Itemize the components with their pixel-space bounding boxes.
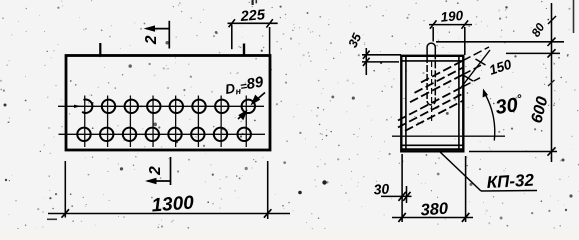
label KP-32 with leader	[438, 150, 537, 191]
loop axis dashed centerline	[431, 61, 433, 122]
dimension 80 and 600 (right vertical chain)	[436, 3, 564, 162]
section mark 2 (top)	[146, 21, 169, 49]
scan artifact blobs	[322, 180, 326, 184]
wire column 4 vertical centerline	[152, 96, 154, 148]
wire bottom row centerline	[59, 133, 266, 135]
svg-text:1300: 1300	[151, 193, 195, 217]
svg-text:2: 2	[143, 35, 160, 45]
stray tick on 600 line	[548, 80, 555, 86]
lifting loop L2 (plan mark)	[243, 44, 245, 57]
hole top row 2 Dn=89	[102, 100, 115, 113]
node A top-row first hole (open arc with arrow)	[82, 100, 92, 113]
wire column 5 vertical centerline	[175, 96, 177, 148]
wire column 6 vertical centerline	[197, 96, 199, 148]
wire column 3 vertical centerline	[129, 96, 131, 148]
wire top row centerline	[58, 105, 264, 107]
wire column 2 vertical centerline	[107, 96, 109, 148]
channel group A (upper dashed ducts at 30 deg)	[410, 61, 463, 102]
horizontal reference line through section	[392, 135, 505, 137]
dimension 30 (wall thickness bottom-left)	[381, 154, 412, 222]
svg-text:225: 225	[239, 7, 266, 25]
svg-text:190: 190	[440, 8, 464, 25]
hole bottom row 1 Dn=89	[77, 128, 90, 141]
scan artifact top edge marks	[252, 0, 254, 5]
hole bottom row 3 Dn=89	[123, 128, 136, 141]
leader arrow lower for Dn=89	[238, 112, 246, 120]
hole bottom row 7 Dn=89	[214, 128, 227, 141]
dimension 225	[228, 19, 278, 55]
panel outline (plan view rectangle)	[66, 56, 270, 151]
hole bottom row 2 Dn=89	[100, 128, 113, 141]
wire column 8 vertical centerline	[245, 96, 247, 148]
channel group B (lower dashed ducts at 30 deg)	[398, 87, 463, 131]
section mark 2 (bottom)	[148, 157, 171, 185]
dimension 35 (top plate thickness)	[362, 48, 401, 75]
hole bottom row 6 Dn=89	[191, 128, 204, 141]
panel section inner wall lines	[402, 56, 463, 150]
panel section outer outline	[401, 56, 463, 152]
svg-text:380: 380	[420, 200, 450, 220]
scan artifact right edge line	[573, 0, 575, 33]
hole top row 3 Dn=89	[125, 100, 138, 113]
hole top row 6 Dn=89	[192, 100, 205, 113]
lifting loop in section	[427, 43, 435, 105]
wire column 1 vertical centerline	[84, 96, 86, 148]
channel B extension beyond edge	[463, 78, 481, 87]
svg-text:30: 30	[373, 180, 390, 197]
dimension 1300	[48, 161, 290, 219]
hole top row 8 Dn=89	[242, 100, 255, 113]
hole top row 7 Dn=89	[215, 100, 228, 113]
svg-text:2: 2	[147, 166, 164, 176]
angle 30 deg arc with arrow	[484, 93, 495, 141]
hole bottom row 8 Dn=89	[238, 128, 251, 141]
hole top row 4 Dn=89	[147, 100, 160, 113]
dimension 380	[392, 156, 473, 222]
channel A extension beyond edge	[463, 47, 490, 75]
svg-text:КП-32: КП-32	[486, 171, 535, 192]
wire column 7 vertical centerline	[220, 96, 222, 148]
hole bottom row 4 Dn=89	[146, 128, 159, 141]
dimension 150 (between ducts, perpendicular)	[461, 50, 490, 88]
hole bottom row 5 Dn=89	[168, 128, 181, 141]
leader arrow upper for Dn=89	[252, 93, 265, 104]
lifting loop L1 (plan mark)	[99, 43, 101, 57]
dimension 190	[429, 20, 472, 55]
hole top row 5 Dn=89	[170, 100, 183, 113]
